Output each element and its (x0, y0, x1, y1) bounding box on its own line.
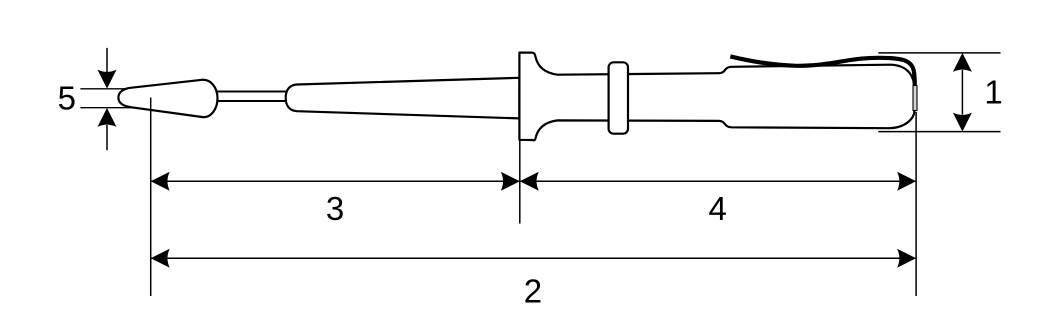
wire: metal rod between tip and shaft (212, 92, 290, 102)
svg-text:5: 5 (58, 80, 76, 117)
svg-text:4: 4 (709, 190, 727, 227)
extension line right (x=916.1) (915, 112, 917, 296)
dim 5 extension line bottom (80, 107, 134, 109)
svg-text:3: 3 (326, 190, 344, 227)
handle body (flange, neck, main grip) (519, 53, 914, 141)
extension line left (x=150.7) (150, 98, 152, 297)
dim 3 right arrowhead (501, 172, 520, 191)
svg-text:2: 2 (524, 272, 542, 309)
dim 1 vertical arrow (953, 53, 972, 132)
dimension line 2 (151, 257, 916, 259)
dim 4 right arrowhead (897, 172, 916, 191)
dim 1 extension line bottom (878, 131, 1000, 133)
dim 5 upper arrow (98, 48, 117, 89)
dimension line 4 (520, 180, 916, 182)
pocket clip (730, 56, 915, 86)
dim 2 left arrowhead (151, 249, 170, 268)
dim 2 right arrowhead (897, 249, 916, 268)
svg-text:1: 1 (984, 74, 1002, 111)
dim 3 left arrowhead (151, 172, 170, 191)
collar ring (609, 62, 628, 133)
extension line middle (x=519.8, below flange) (519, 140, 521, 224)
tapered plastic shaft (286, 78, 520, 119)
probe tip (118, 80, 217, 117)
dim 4 left arrowhead (520, 172, 539, 191)
dim 5 extension line top (80, 88, 128, 90)
dim 1 extension line top (878, 52, 1000, 54)
pocket clip lower bar (913, 86, 917, 111)
dim 5 lower arrow (98, 108, 117, 150)
dimension line 3 (151, 180, 520, 182)
